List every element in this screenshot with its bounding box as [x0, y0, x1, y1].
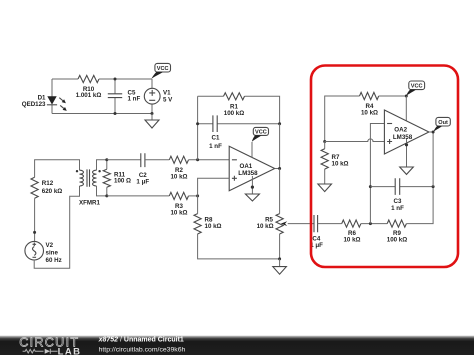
capacitor C1 [209, 115, 222, 149]
node minus input [196, 158, 199, 161]
VCC label OA1 [252, 127, 269, 141]
svg-text:5 V: 5 V [163, 96, 173, 103]
wire R2 to OA1 minus [189, 159, 230, 161]
svg-text:C1: C1 [212, 135, 220, 142]
svg-text:1 μF: 1 μF [136, 178, 149, 185]
svg-text:1 nF: 1 nF [209, 143, 222, 150]
resistor R3 [169, 192, 188, 199]
resistor R7 [321, 149, 348, 169]
wire bias to R7 [324, 142, 326, 149]
capacitor C3 [391, 178, 404, 212]
wire R10 to C5 to VCC node [99, 78, 152, 80]
plus input branch wire [198, 178, 230, 196]
svg-text:Out: Out [438, 120, 448, 126]
wire R8 bottom [198, 234, 280, 259]
ground OA1 [245, 194, 259, 201]
resistor R10 [78, 75, 99, 82]
wire C1 row [198, 123, 280, 125]
node C5 top [114, 78, 117, 81]
svg-text:10 kΩ: 10 kΩ [361, 110, 378, 117]
node OA1 output [278, 167, 281, 170]
svg-text:10 kΩ: 10 kΩ [343, 237, 360, 244]
svg-text:10 kΩ: 10 kΩ [205, 223, 222, 230]
VCC label OA2 [406, 81, 424, 96]
OA1 V- pin [251, 176, 253, 194]
svg-text:60 Hz: 60 Hz [46, 257, 62, 264]
OA2 V+ pin [405, 96, 407, 121]
right rail to output [279, 124, 281, 169]
resistor R12 [31, 177, 38, 198]
plus wire with hop over feedback rail [325, 139, 385, 142]
svg-text:1 nF: 1 nF [391, 205, 404, 212]
svg-text:10 kΩ: 10 kΩ [332, 161, 349, 168]
VCC label V1 [151, 63, 170, 79]
potentiometer R5 [257, 214, 314, 234]
node VCC OA2 [405, 95, 408, 98]
right rail to output [432, 132, 434, 187]
svg-text:1 nF: 1 nF [128, 95, 141, 102]
svg-text:LM358: LM358 [393, 134, 413, 141]
wire R3 from transformer [107, 195, 170, 197]
OA1 V+ pin [251, 142, 253, 157]
svg-text:LAB: LAB [58, 347, 82, 355]
wire C2 to R2 [145, 159, 169, 161]
node ground bottom [278, 257, 281, 260]
svg-text:XFMR1: XFMR1 [79, 200, 101, 207]
feedback rail (minus) [370, 124, 384, 224]
svg-text:100 kΩ: 100 kΩ [387, 237, 407, 244]
node R3/R8/plus [196, 194, 199, 197]
node C5 bottom [114, 112, 117, 115]
transformer XFMR1 [76, 169, 101, 206]
ground bottom rail [279, 259, 281, 267]
logo doodle wire [23, 349, 44, 353]
resistor R6 [342, 220, 361, 227]
Out label [433, 117, 450, 131]
right rail output to R5 [279, 169, 281, 214]
node C1 right [278, 122, 281, 125]
svg-text:100 kΩ: 100 kΩ [224, 110, 244, 117]
wire R1 row [198, 96, 280, 123]
node OA2 output [432, 131, 435, 134]
svg-text:R12: R12 [42, 180, 54, 187]
svg-text:10 kΩ: 10 kΩ [257, 223, 274, 230]
resistor R1 [224, 93, 245, 100]
svg-text:1.001 kΩ: 1.001 kΩ [76, 92, 102, 99]
wire V2 bottom loop [34, 186, 79, 268]
wire node to R8 [197, 196, 199, 214]
node above V2 [33, 231, 36, 234]
wire secondary top [97, 160, 107, 170]
svg-text:VCC: VCC [411, 84, 423, 90]
node R11 bottom [105, 194, 108, 197]
voltage source V1 [144, 79, 173, 114]
resistor R4 [360, 92, 379, 99]
svg-text:http://circuitlab.com/ce39k6h: http://circuitlab.com/ce39k6h [99, 346, 186, 353]
wire R4 to VCC node [379, 95, 407, 97]
resistor R2 [169, 156, 188, 163]
wire top (D1 top to R10) [52, 78, 78, 80]
svg-text:LM358: LM358 [238, 170, 258, 177]
svg-text:10 kΩ: 10 kΩ [170, 209, 187, 216]
svg-text:OA2: OA2 [394, 127, 407, 134]
svg-text:620 kΩ: 620 kΩ [42, 188, 62, 195]
resistor R11 [103, 160, 131, 196]
capacitor C5 [108, 79, 141, 114]
node C3 left [369, 185, 372, 188]
red highlight box [311, 66, 458, 268]
wire R6 to node [361, 223, 387, 225]
resistor R8 [194, 214, 222, 234]
bias rail R4 left / R7 [325, 96, 360, 142]
diode D1 QED123 [22, 95, 68, 113]
svg-text:sine: sine [46, 250, 59, 257]
wire R9 to right rail [406, 187, 433, 224]
source V2 sine [25, 241, 62, 264]
node V1 bottom [151, 112, 154, 115]
wire C3 row [370, 186, 433, 188]
node R11 top [105, 158, 108, 161]
svg-text:V2: V2 [46, 242, 54, 249]
node C3 right [432, 185, 435, 188]
svg-text:100 Ω: 100 Ω [114, 177, 131, 184]
wire D1 left branch [51, 79, 53, 114]
feedback left rail [197, 96, 199, 160]
svg-text:VCC: VCC [255, 130, 267, 136]
svg-text:10 kΩ: 10 kΩ [170, 173, 187, 180]
wire top left loop [35, 160, 80, 178]
OA2 V- pin [406, 139, 408, 167]
svg-text:QED123: QED123 [22, 101, 46, 108]
OA1 output stub [275, 168, 280, 170]
capacitor C2 [136, 153, 149, 185]
ground OA2 [400, 167, 414, 174]
wire R7 to ground [324, 169, 326, 184]
resistor R9 [387, 220, 406, 227]
ground under V1 [151, 114, 153, 121]
svg-text:x8752 / Unnamed Circuit1: x8752 / Unnamed Circuit1 [98, 336, 184, 343]
svg-text:VCC: VCC [157, 66, 169, 72]
wire R3 to node [189, 195, 198, 197]
node plus bias [323, 140, 326, 143]
wire bottom of loop [52, 113, 152, 115]
node R6/R9/C3 feedback [369, 222, 372, 225]
wire to C2 [107, 159, 141, 161]
wire C4 to R6 [318, 223, 342, 225]
OA2 output stub [429, 131, 433, 133]
op-amp OA1 [229, 146, 275, 190]
wire secondary bottom [97, 186, 107, 196]
wire R5 bottom [279, 234, 281, 259]
wire R12 to V2 [34, 198, 36, 241]
ground R7 [318, 184, 332, 192]
op-amp OA2 [384, 110, 429, 154]
capacitor C4 [310, 215, 323, 249]
node C1 left [196, 122, 199, 125]
